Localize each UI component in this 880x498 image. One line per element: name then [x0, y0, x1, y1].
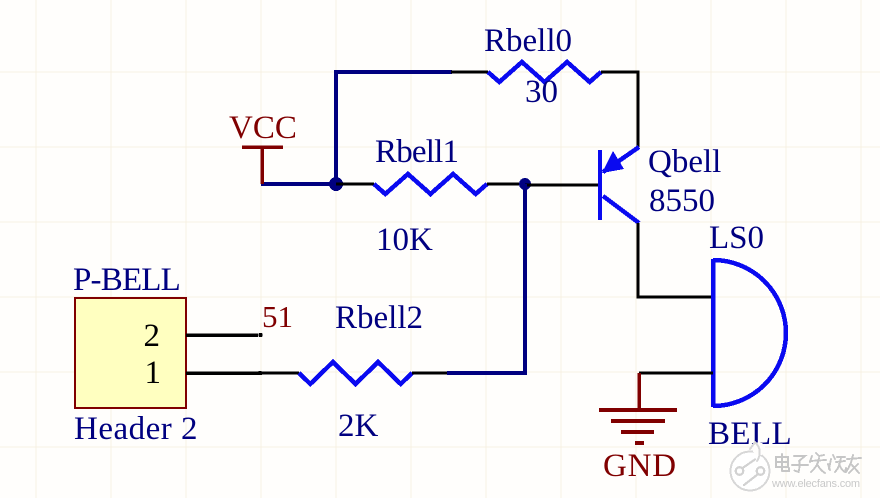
- wire node B to Rbell2: [447, 184, 525, 373]
- svg-text:10K: 10K: [376, 222, 433, 258]
- svg-text:30: 30: [525, 74, 558, 110]
- resistor Rbell0: [451, 62, 640, 82]
- svg-text:LS0: LS0: [709, 220, 764, 256]
- svg-text:Rbell0: Rbell0: [484, 23, 572, 59]
- power symbol VCC: [242, 147, 283, 184]
- svg-text:Qbell: Qbell: [648, 144, 721, 180]
- svg-text:GND: GND: [603, 448, 677, 484]
- svg-text:Header 2: Header 2: [74, 411, 198, 447]
- connector P-BELL: [75, 298, 186, 408]
- wire node A to top rail: [336, 72, 452, 184]
- node B junction: [519, 178, 531, 190]
- svg-text:2: 2: [144, 318, 161, 354]
- svg-text:Rbell1: Rbell1: [375, 134, 458, 170]
- svg-text:2K: 2K: [338, 408, 379, 444]
- resistor Rbell1: [336, 174, 525, 194]
- svg-text:BELL: BELL: [708, 416, 792, 452]
- wire Rbell0 to Q emitter: [637, 72, 640, 147]
- wire Q collector to speaker: [638, 223, 713, 297]
- wire speaker to GND: [639, 372, 713, 375]
- svg-text:51: 51: [262, 299, 293, 334]
- svg-text:8550: 8550: [649, 183, 715, 219]
- watermark text: [776, 453, 861, 473]
- transistor Qbell: [600, 147, 639, 223]
- svg-text:Rbell2: Rbell2: [335, 300, 423, 336]
- resistor Rbell2: [261, 362, 447, 384]
- wire VCC to node A: [261, 182, 336, 186]
- pin 1: [145, 355, 263, 391]
- pin 2: [144, 318, 263, 354]
- ground GND: [599, 373, 677, 443]
- svg-text:P-BELL: P-BELL: [73, 262, 180, 298]
- watermark logo: [731, 442, 770, 491]
- svg-text:VCC: VCC: [229, 110, 297, 146]
- wire node B to Q base: [525, 184, 601, 187]
- speaker LS0: [713, 259, 786, 407]
- svg-text:www.elecfans.com: www.elecfans.com: [771, 478, 860, 490]
- svg-text:1: 1: [145, 355, 162, 391]
- node A junction: [329, 177, 343, 191]
